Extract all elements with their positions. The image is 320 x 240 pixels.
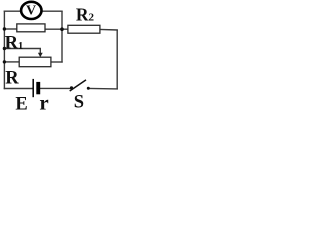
switch S	[70, 80, 90, 91]
svg-text:V: V	[26, 4, 36, 19]
wire: left rail	[3, 11, 5, 90]
wire: bottom wire left segment	[4, 88, 33, 90]
svg-text:S: S	[74, 92, 84, 112]
wire: R1 to R2 connecting wire	[45, 28, 69, 30]
svg-text:R2: R2	[76, 4, 95, 24]
wire: rheostat R right wire to middle rail	[50, 61, 62, 63]
wire: bottom wire right segment	[89, 87, 118, 90]
wire: R1 left wire	[4, 28, 17, 30]
node: junction of wiper lead on left rail	[3, 47, 6, 50]
wire: rheostat R left wire	[4, 61, 19, 63]
wire: top wire right segment	[42, 10, 63, 12]
battery cell E r	[33, 79, 40, 97]
svg-text:E: E	[15, 95, 27, 115]
wire: bottom wire middle segment	[40, 87, 71, 89]
svg-text:R: R	[5, 69, 19, 89]
node: junction of R1 branch on left rail	[3, 27, 6, 30]
voltmeter V	[21, 2, 41, 19]
wire: R2 right wire	[99, 28, 118, 31]
resistor R1	[17, 24, 45, 32]
svg-text:r: r	[39, 91, 48, 114]
svg-text:R1: R1	[5, 34, 24, 54]
resistor R2	[68, 25, 100, 33]
wire: rheostat wiper lead	[4, 49, 40, 54]
rheostat R	[19, 57, 51, 66]
wiper arrowhead	[38, 53, 43, 57]
wire: right rail	[116, 30, 118, 90]
node: junction of R branch on left rail	[3, 60, 6, 63]
wire: middle rail	[61, 11, 63, 62]
wire: top wire left segment	[4, 10, 22, 12]
node: junction on middle rail	[60, 27, 64, 31]
